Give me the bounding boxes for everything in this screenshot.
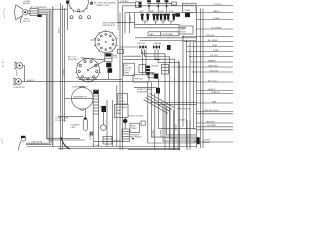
x-box small mark [90,132,93,135]
strip box G [148,32,179,36]
mid horizontal wires [123,55,142,57]
svg-text:GENERATOR: GENERATOR [73,96,87,99]
svg-text:HORN: HORN [17,69,19,76]
dark square right of fuses [176,13,181,17]
svg-text:BAT: BAT [150,10,155,13]
svg-text:LAMP: LAMP [180,28,186,31]
blob under coil [106,63,111,68]
svg-text:IGN: IGN [160,11,164,13]
small connector mid [141,121,145,125]
left mid horn 1 [15,62,23,69]
bottom-left arc [61,137,70,149]
wire into fuse top [118,2,135,4]
box F right [179,26,193,34]
svg-text:DIR SIG: DIR SIG [137,43,145,45]
svg-text:18 BLK W 18 B: 18 BLK W 18 B [128,116,143,118]
svg-text:TAN: TAN [212,100,217,103]
coil wire down [108,73,110,80]
fuse block inner verticals [124,13,126,34]
svg-text:12 GA RED: 12 GA RED [55,119,67,122]
svg-text:A/C CLU: A/C CLU [208,79,217,82]
svg-text:BLACK: BLACK [208,88,216,91]
distributor circle C3 [75,58,101,83]
fuse pair group 2 [152,14,159,25]
flasher blob [156,88,160,94]
capsule component [83,119,87,130]
svg-text:BLOCK: BLOCK [23,21,31,23]
small circle component [101,125,107,131]
wire horn to lower-left stub [20,16,22,23]
wires horn-connector [28,10,30,12]
fuse pair group 1 [141,14,150,25]
x-box connector [148,73,154,78]
dash boundary verticals [117,0,119,23]
wire C2 to connectors [120,46,140,48]
svg-text:TRAY: TRAY [131,127,137,130]
C1 feed wire [67,1,69,30]
svg-text:W/O RADIO: W/O RADIO [130,136,142,139]
wire A5 dark vertical [52,7,54,147]
svg-text:JUNCTION: JUNCTION [31,142,42,144]
wire C3 bottom to right [79,78,122,80]
svg-text:COURTESY: COURTESY [115,107,128,109]
svg-text:18 DG-LPS: 18 DG-LPS [166,137,178,139]
svg-text:IGN SW: IGN SW [210,70,219,72]
box J heater switch [133,75,149,82]
svg-text:18 BLK: 18 BLK [118,22,120,30]
right mid verticals [182,37,184,127]
svg-text:CIG: CIG [119,96,123,98]
strip wires down [92,114,94,147]
svg-text:TO HTR: TO HTR [213,4,222,6]
bottom-left component [19,136,26,150]
black column [154,74,158,79]
svg-text:DK GRN: DK GRN [207,125,216,127]
svg-text:LINK: LINK [71,127,76,129]
svg-text:12 GA: 12 GA [93,144,100,147]
ignition coil box [105,53,112,61]
bottom-right flasher [194,137,211,144]
left mid horn 2 [14,78,22,85]
svg-text:PURPLE: PURPLE [211,92,220,94]
wire to ignition feed [53,8,68,10]
svg-text:FEED: FEED [115,113,121,115]
svg-text:COIL: COIL [113,57,119,59]
horn H1 (top-left) [15,5,28,20]
svg-text:AT OVERDRIVE: AT OVERDRIVE [31,6,48,9]
svg-text:ACC: ACC [140,10,145,13]
svg-text:FUSE PNL: FUSE PNL [184,5,195,7]
svg-text:18 DBL: 18 DBL [153,129,155,137]
blob under box E [185,13,190,17]
svg-text:LOW NOTE: LOW NOTE [13,87,25,89]
bottom horizontals [58,115,83,117]
bottom verticals [106,100,108,147]
ladder connector strip right of C4 [93,90,99,114]
small box top [136,2,142,8]
svg-text:12 BLK: 12 BLK [63,68,65,76]
svg-text:FEED: FEED [119,101,125,103]
small dark box right of bowties [167,45,171,50]
svg-text:A/C: A/C [125,64,129,67]
firewall double line [200,9,202,149]
svg-text:HTR SW: HTR SW [134,79,144,81]
svg-text:BRAKE: BRAKE [208,59,216,62]
connector block right of horn [30,9,42,17]
center verticals going down [148,82,195,143]
mid horizontal pair [150,101,196,103]
svg-text:BLOWER: BLOWER [208,40,218,42]
svg-text:LPS: LPS [169,11,174,13]
generator circle C4 [72,86,94,110]
bottom connector box [103,137,112,145]
junction dot [123,119,127,123]
svg-text:HIGH BLO: HIGH BLO [68,59,79,61]
junction dots right cluster [182,36,183,37]
svg-text:TRANS ONLY: TRANS ONLY [96,4,110,7]
svg-text:DOME: DOME [213,18,220,20]
svg-text:WIPER: WIPER [154,43,162,45]
bottom right verticals [186,120,188,150]
top fuse connector 1 [147,0,151,12]
wire run A3 [38,13,85,140]
wire run A2 [38,11,49,143]
fuse pair group 3 [160,14,167,25]
svg-text:18 BLK: 18 BLK [113,141,121,143]
wiper switch circle C2 [94,30,117,55]
directional flasher label [134,86,157,88]
x-in-circle symbol [90,2,93,5]
bottom box with text [130,123,140,132]
small connector marks top right [172,2,177,5]
svg-text:TAIL: TAIL [150,33,155,36]
svg-text:PNK-BLK WHT: PNK-BLK WHT [204,110,220,112]
svg-text:RELAY: RELAY [23,2,31,5]
fuse pair group 4 [167,14,176,25]
scan artifact left edge [4,8,5,18]
svg-text:WIPER MTR: WIPER MTR [103,25,116,27]
top fuse connector 3 [165,0,169,12]
bowtie connector pair 1 [140,45,147,49]
box L2 [114,105,128,118]
svg-text:CLUSTER: CLUSTER [211,27,222,29]
svg-text:LAMP: LAMP [115,109,121,112]
svg-text:18 PPL: 18 PPL [161,129,163,137]
ignition switch circle C1 [69,0,88,12]
svg-text:STOP HAZ: STOP HAZ [162,33,174,36]
box E top right [183,3,197,12]
vertical bundle B [59,3,61,150]
svg-text:ASH: ASH [131,124,136,127]
svg-text:RELAY: RELAY [203,141,211,144]
box L1 [118,94,128,105]
svg-text:LTR: LTR [119,98,123,100]
svg-text:ENG: ENG [59,28,61,33]
svg-text:18 B-18: 18 B-18 [178,119,186,121]
svg-text:HTR A/C: HTR A/C [120,0,129,3]
svg-text:RADIO: RADIO [213,10,220,13]
top rail [147,3,171,5]
small box I [139,65,145,73]
svg-text:DIR SIG: DIR SIG [206,35,214,37]
wire run A1 [38,9,51,144]
svg-text:FLASHER: FLASHER [137,90,148,93]
svg-text:FUEL: FUEL [212,45,218,47]
svg-text:RESISTANCE WIRE: RESISTANCE WIRE [76,77,97,80]
svg-text:BROWN: BROWN [206,121,215,123]
top fuse connector 2 [156,0,160,12]
svg-text:18 BRN: 18 BRN [130,15,132,23]
black triangle under C4 [83,117,87,120]
wire run A4 [42,15,80,139]
svg-text:BLACK: BLACK [27,79,35,82]
A/C control box H [124,63,135,75]
svg-text:OIL SIG: OIL SIG [210,55,218,57]
fuse block bottom rails [135,23,180,25]
right destination wires [171,4,234,142]
svg-text:FUSE: FUSE [180,32,186,34]
pointer from C3 [89,61,105,70]
svg-text:18 W-2B LPS: 18 W-2B LPS [177,109,191,111]
svg-text:TEMP: TEMP [213,50,220,52]
bowtie connector pair 2 [153,45,160,49]
svg-text:CONN: CONN [184,10,191,12]
blob above small circle [101,106,106,112]
blob 2 [108,68,113,73]
horn bracket wire long to right [23,66,197,82]
svg-text:FAN: FAN [125,72,130,75]
terminal circles row [70,16,91,19]
diagonal wires [146,98,171,112]
svg-text:18 LBL: 18 LBL [176,123,178,131]
svg-text:GEN TELL: GEN TELL [208,65,219,67]
ladder connector N [122,129,130,142]
small connector on boundary [118,49,124,53]
stair wires to verticals [142,49,166,150]
svg-text:RELAY: RELAY [152,65,160,68]
